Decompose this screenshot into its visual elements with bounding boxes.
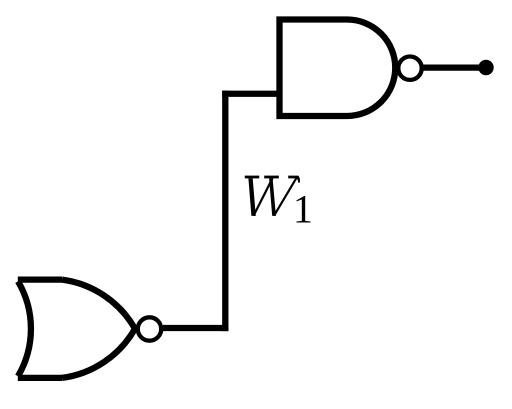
wire: horizontal segment from NOR output bubble to corner junction bbox=[163, 325, 228, 331]
wire: NAND output to terminal bbox=[423, 64, 486, 70]
output terminal node (filled dot) bbox=[478, 60, 493, 75]
nor gate output bubble bbox=[138, 317, 161, 340]
nand gate body bbox=[280, 20, 396, 117]
nor gate body: top input edge bbox=[18, 276, 62, 282]
nor gate body: front output curves bbox=[62, 280, 135, 378]
wire: horizontal segment from corner junction to NAND input pin bbox=[222, 91, 279, 97]
svg-text:1: 1 bbox=[293, 187, 313, 232]
wire W1: vertical segment between corner junctions bbox=[222, 91, 228, 332]
net label W1 bbox=[245, 176, 313, 232]
nor gate body: bottom input edge bbox=[18, 375, 62, 381]
nor gate body: concave back arc bbox=[18, 281, 31, 376]
nand gate output bubble bbox=[398, 56, 421, 79]
